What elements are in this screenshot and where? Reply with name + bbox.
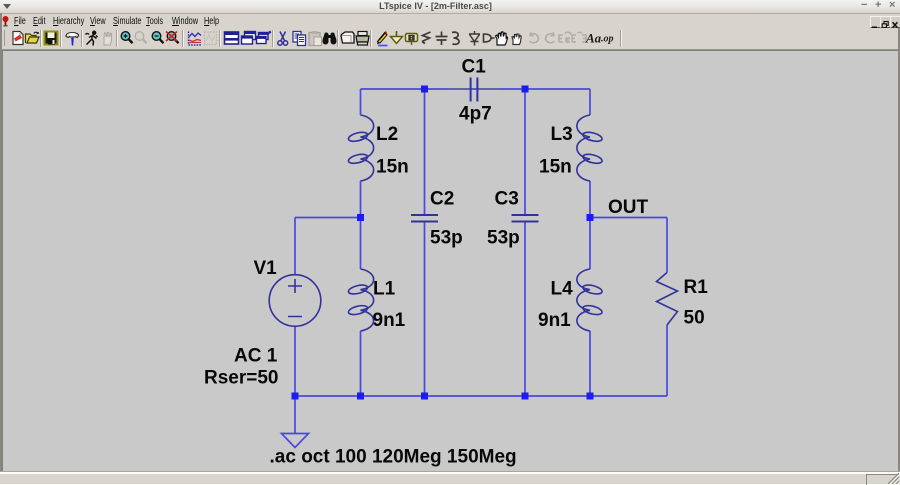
- svg-text:L1: L1: [373, 279, 396, 300]
- svg-text:.ac oct 100 120Meg 150Meg: .ac oct 100 120Meg 150Meg: [270, 447, 517, 468]
- svg-text:V1: V1: [254, 258, 278, 279]
- svg-text:C1: C1: [462, 57, 487, 78]
- svg-text:50: 50: [684, 308, 705, 329]
- svg-text:15n: 15n: [539, 157, 572, 178]
- svg-text:R1: R1: [684, 277, 709, 298]
- svg-text:OUT: OUT: [608, 197, 649, 218]
- svg-text:L2: L2: [376, 124, 398, 145]
- svg-text:15n: 15n: [376, 157, 409, 178]
- svg-text:L4: L4: [551, 279, 574, 300]
- svg-text:4p7: 4p7: [459, 104, 492, 125]
- svg-text:Rser=50: Rser=50: [204, 368, 278, 389]
- svg-text:53p: 53p: [430, 228, 463, 249]
- svg-text:9n1: 9n1: [538, 310, 571, 331]
- svg-text:C3: C3: [495, 189, 519, 210]
- svg-text:53p: 53p: [487, 228, 520, 249]
- svg-text:L3: L3: [551, 124, 573, 145]
- svg-text:9n1: 9n1: [373, 310, 406, 331]
- svg-text:C2: C2: [430, 189, 454, 210]
- svg-text:AC 1: AC 1: [234, 346, 278, 367]
